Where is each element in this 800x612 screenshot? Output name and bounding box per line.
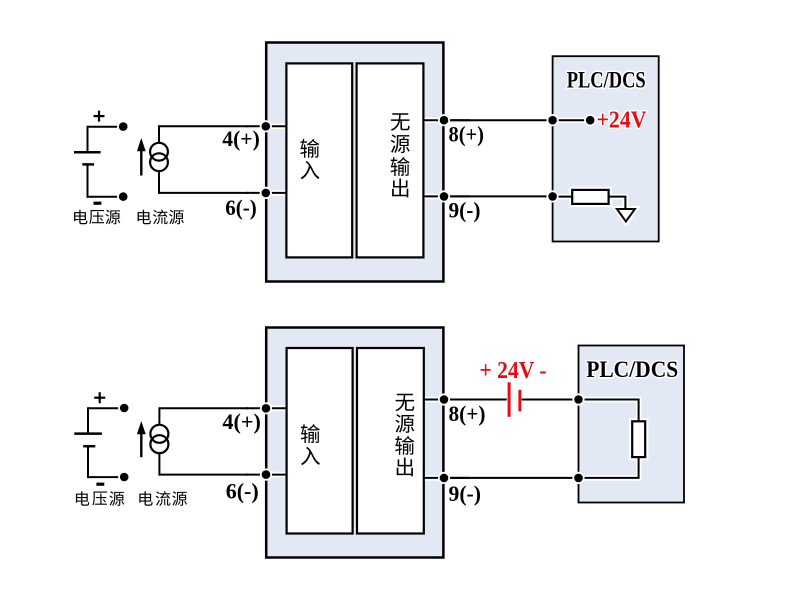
svg-text:6(-): 6(-) — [226, 478, 259, 503]
svg-text:PLC/DCS: PLC/DCS — [567, 67, 646, 92]
minus sign (bottom battery) — [96, 483, 104, 486]
voltage source battery (top) — [88, 126, 124, 128]
+24V node dot (top) — [584, 114, 596, 126]
wire current source up (bottom) — [158, 407, 160, 425]
battery - terminal dot (top) — [117, 191, 129, 203]
load loop wire inside PLC (bottom) — [579, 400, 639, 478]
wire current source down (top) — [158, 171, 160, 194]
terminal 4 dot (top) — [260, 120, 272, 132]
label 电压源 (top) — [74, 210, 87, 224]
terminal 6 dot (top) — [260, 187, 272, 199]
label 无源输出 (top) — [391, 113, 410, 130]
PLC node dot 8 (bottom) — [572, 393, 584, 405]
current source circles (top) — [150, 143, 168, 161]
24V supply battery short plate (bottom, red) — [518, 390, 521, 412]
terminal 8 dot (top) — [438, 114, 450, 126]
wire current source up (top) — [158, 125, 160, 143]
terminal 8 dot (bottom) — [438, 393, 450, 405]
terminal 9 dot (top) — [438, 190, 450, 202]
load resistor halo (top) — [572, 190, 608, 204]
isolator box border (top) — [266, 43, 443, 282]
wire 9 through resistor to ground corner (top) — [553, 197, 626, 206]
PLC box border (top) — [553, 56, 659, 241]
wire terminal 8 to supply (bottom) — [444, 399, 507, 401]
battery + terminal dot (top) — [117, 121, 129, 133]
wire terminal 8 to PLC (top) — [444, 119, 553, 121]
svg-text:6(-): 6(-) — [225, 195, 256, 220]
load resistor (top) — [572, 190, 608, 204]
passive output block (bottom) — [357, 348, 424, 534]
isolator box border (bottom) — [266, 328, 443, 558]
plus sign (bottom battery) — [94, 397, 105, 399]
svg-text:8(+): 8(+) — [449, 122, 485, 147]
wire: output block to terminal 8 (bottom) — [424, 397, 470, 403]
battery + terminal dot (bottom) — [118, 402, 130, 414]
current source arrow (top) — [137, 138, 146, 151]
load resistor (bottom) — [632, 421, 645, 457]
svg-text:9(-): 9(-) — [449, 481, 482, 506]
label 输入 (bottom) — [301, 424, 320, 443]
svg-text:PLC/DCS: PLC/DCS — [586, 357, 678, 383]
minus sign (top battery) — [94, 202, 102, 205]
PLC internal node dot (top) — [547, 114, 559, 126]
label 电压源 (bottom) — [76, 491, 89, 505]
svg-text:+ 24V -: + 24V - — [480, 357, 547, 384]
current source arrow (bottom) — [137, 421, 146, 434]
wire: terminal 6 into input block (bottom) — [246, 472, 287, 478]
wire current source down (bottom) — [158, 453, 160, 475]
wire: terminal 4 into input block (top) — [246, 124, 287, 130]
current source circles (bottom) — [150, 425, 168, 443]
passive output block (top) — [357, 63, 424, 257]
wire terminal 9 to PLC (bottom) — [444, 477, 579, 479]
label 电流源 (top) — [138, 210, 151, 224]
svg-text:9(-): 9(-) — [449, 197, 481, 222]
PLC/DCS box (bottom) — [579, 346, 685, 503]
load resistor halo (bottom) — [632, 421, 645, 457]
wire: terminal 6 into input block (top) — [246, 190, 287, 196]
voltage source battery (bottom) — [88, 407, 124, 409]
svg-text:4(+): 4(+) — [222, 126, 259, 151]
PLC node dot 9 (bottom) — [572, 472, 584, 484]
wire: output block to terminal 9 (bottom) — [424, 475, 470, 481]
terminal 4 dot (bottom) — [260, 402, 272, 414]
wire supply to PLC (bottom) — [522, 399, 579, 401]
wire to terminal 4 (bottom) — [159, 407, 248, 409]
wire +24V inside PLC (top) — [553, 117, 591, 123]
PLC box border (bottom) — [579, 346, 685, 503]
svg-text:8(+): 8(+) — [449, 401, 486, 426]
label 输入 (top) — [300, 139, 319, 158]
isolator module box (top) — [266, 43, 443, 282]
ground symbol (top) — [617, 209, 635, 222]
label 无源输出 (bottom) — [395, 394, 414, 411]
plus sign (top battery) — [94, 115, 105, 117]
wire terminal 9 to PLC (top) — [444, 195, 553, 197]
ground symbol halo (top) — [617, 209, 635, 222]
svg-text:4(+): 4(+) — [222, 409, 261, 434]
PLC/DCS box (top) — [553, 56, 659, 241]
wire: output block to terminal 8 (top) — [423, 117, 470, 123]
input block (bottom) — [287, 348, 353, 534]
wire to terminal 6 (bottom) — [159, 474, 248, 476]
wire to terminal 6 (top) — [159, 192, 248, 194]
input block (top) — [286, 63, 352, 257]
label 电流源 (bottom) — [139, 491, 152, 505]
wire: output block to terminal 9 (top) — [423, 194, 470, 200]
24V supply battery long plate (bottom, red) — [508, 382, 511, 417]
terminal 6 dot (bottom) — [260, 469, 272, 481]
isolator module box (bottom) — [266, 328, 443, 558]
battery - terminal dot (bottom) — [118, 471, 130, 483]
svg-text:+24V: +24V — [597, 106, 647, 133]
terminal 9 dot (bottom) — [438, 472, 450, 484]
wire to terminal 4 (top) — [159, 125, 248, 127]
wire: terminal 4 into input block (bottom) — [246, 405, 287, 411]
